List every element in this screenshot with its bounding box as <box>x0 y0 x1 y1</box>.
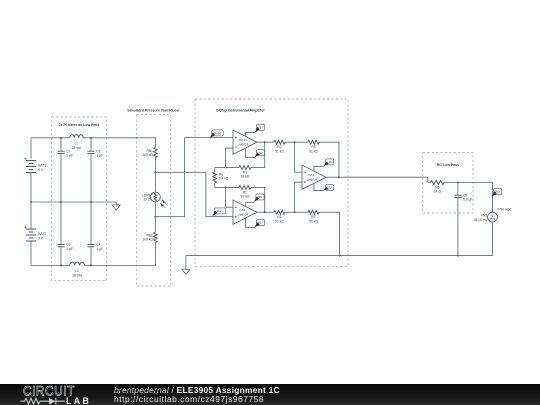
resistor R2' 91 k&#937; <box>274 210 285 214</box>
svg-text:1 µF: 1 µF <box>96 247 103 251</box>
junction <box>294 211 296 213</box>
wire R1 right to OA1 output <box>251 142 265 167</box>
junction <box>60 201 62 203</box>
wire mid rail <box>31 201 116 203</box>
junction <box>90 137 92 139</box>
svg-text:91 kΩ: 91 kΩ <box>241 175 250 179</box>
junction <box>264 141 266 143</box>
svg-text:1 µF: 1 µF <box>66 154 73 158</box>
wire C5 top lead <box>457 183 459 196</box>
wire RB1 bottom lead <box>154 158 156 173</box>
svg-text:28 mH: 28 mH <box>72 146 82 150</box>
svg-text:RC Low Pass: RC Low Pass <box>437 163 459 167</box>
CircuitLab logo <box>22 385 94 405</box>
wire ground stub <box>115 202 117 205</box>
wire R1' left <box>215 186 239 188</box>
junction <box>457 255 459 257</box>
wire C2 top lead <box>90 138 92 151</box>
svg-text:91 kΩ: 91 kΩ <box>241 195 250 199</box>
svg-text:Simulated Pressure Transducer: Simulated Pressure Transducer <box>127 108 180 112</box>
wire RB2 top lead <box>154 217 156 232</box>
wire R2 to R3 <box>285 141 308 143</box>
net flag -9V <box>246 202 255 206</box>
wire Rg bottom lead <box>214 183 216 187</box>
node Y junction <box>154 216 156 218</box>
svg-text:100 kΩ: 100 kΩ <box>142 153 153 157</box>
resistor Rg 2.4 k&#937; <box>213 172 217 183</box>
svg-text:10 Ω: 10 Ω <box>143 198 151 202</box>
wire OA2 output <box>257 211 274 213</box>
svg-text:91 kΩ: 91 kΩ <box>309 219 318 223</box>
svg-text:6.8 µF: 6.8 µF <box>463 198 472 202</box>
junction <box>225 186 227 188</box>
op-amp OA3 LM6024 <box>302 165 326 189</box>
svg-text:0-5V ADC: 0-5V ADC <box>497 208 512 212</box>
net flag +9V <box>246 218 255 227</box>
capacitor C2 <box>87 151 94 153</box>
battery BAT1 <box>26 161 36 173</box>
net flag Vin(-) <box>214 208 225 214</box>
voltmeter VM1 <box>488 212 498 222</box>
wire BAT1 bottom lead <box>30 173 32 203</box>
wire Vin(-) net from node X to op-amp OA2 + input <box>155 172 233 216</box>
wire ground rail <box>186 255 493 257</box>
wire C4 top lead <box>90 202 92 244</box>
wire R1 left <box>215 166 239 168</box>
svg-text:9 V: 9 V <box>38 236 44 240</box>
junction <box>294 141 296 143</box>
wire R6 to output node <box>444 182 493 184</box>
junction <box>90 201 92 203</box>
wire Rg top lead <box>214 167 216 172</box>
svg-text:3-Chip Instrumental Amplifier: 3-Chip Instrumental Amplifier <box>216 108 266 112</box>
capacitor C1 <box>57 151 64 153</box>
wire R3 right to output node <box>319 142 339 177</box>
wire C2 bottom lead <box>90 154 92 202</box>
junction <box>457 182 459 184</box>
svg-text:1 µF: 1 µF <box>66 247 73 251</box>
svg-text:100 kΩ: 100 kΩ <box>142 238 153 242</box>
wire C3 bottom lead <box>60 247 62 266</box>
junction <box>60 137 62 139</box>
ground <box>112 205 120 210</box>
junction <box>339 255 341 257</box>
wire R1' right to OA2 output <box>251 187 265 212</box>
junction <box>60 265 62 267</box>
battery BAT2 <box>26 229 36 241</box>
region box: Simulated Pressure Transducer <box>136 115 171 287</box>
svg-text:34 Ω: 34 Ω <box>434 190 442 194</box>
node X junction <box>154 171 156 173</box>
resistor R3 91 k&#937; <box>308 140 319 144</box>
capacitor C3 <box>57 244 64 246</box>
junction <box>338 176 340 178</box>
resistor RB2 100 k&#937; <box>154 232 158 242</box>
net flag Vin(+) <box>212 130 223 136</box>
wire Vin(+) net from node Y to op-amp OA1 + input <box>155 138 233 217</box>
svg-text:9 V: 9 V <box>38 168 44 172</box>
wire ground stub <box>185 256 187 270</box>
svg-text:28 mH: 28 mH <box>72 273 82 277</box>
wire bottom rail left <box>31 265 70 267</box>
wire OA1 output <box>257 141 274 143</box>
capacitor C4 <box>87 244 94 246</box>
net flag +9V <box>314 167 324 172</box>
resistor R1 91 k&#937; <box>239 165 251 169</box>
wire C4 bottom lead <box>90 247 92 266</box>
svg-text:Vin(+): Vin(+) <box>214 131 221 135</box>
inductor L1 <box>70 135 83 138</box>
op-amp OA1 LM6024 <box>233 130 257 154</box>
svg-text:91 kΩ: 91 kΩ <box>309 149 318 153</box>
net flag -9V <box>246 148 255 157</box>
svg-text:LM6024: LM6024 <box>307 177 318 181</box>
svg-text:91 kΩ: 91 kΩ <box>275 149 284 153</box>
wire top rail right <box>83 137 155 139</box>
region box: 3-Chip Instrumental Amplifier <box>195 99 348 266</box>
net flag -9V <box>314 183 324 190</box>
svg-text:LM6024: LM6024 <box>238 212 249 216</box>
resistor R3' 91 k&#937; <box>308 210 319 214</box>
junction <box>90 265 92 267</box>
net flag Vout <box>494 189 502 195</box>
svg-text:1 µF: 1 µF <box>96 154 103 158</box>
inductor L2 <box>70 262 85 265</box>
wire top rail left <box>31 137 70 139</box>
junction <box>264 211 266 213</box>
resistor R2 91 k&#937; <box>274 140 285 144</box>
wire OA2 - input <box>226 187 233 207</box>
wire C3 top lead <box>60 202 62 244</box>
wire voltmeter bottom lead <box>492 222 494 256</box>
wire bottom rail right <box>84 265 156 267</box>
wire C1 top lead <box>60 138 62 151</box>
wire BAT2 top lead <box>30 202 32 229</box>
wire C1 bottom lead <box>60 154 62 202</box>
wire C5 bottom lead <box>457 198 459 256</box>
junction <box>30 201 32 203</box>
wire RB2 bottom lead <box>154 243 157 266</box>
op-amp OA2 LM6024 <box>233 200 257 224</box>
svg-text:28.15 mV: 28.15 mV <box>473 218 488 222</box>
resistor R6 34 &#937; <box>431 181 444 185</box>
LDR1 light arrows <box>162 201 167 208</box>
photoresistor LDR1 10 &#937; <box>151 192 161 202</box>
wire R2' to R3' <box>285 211 308 213</box>
svg-text:Vin(-): Vin(-) <box>217 209 224 213</box>
svg-text:LM6024: LM6024 <box>238 142 249 146</box>
wire LDR1 bottom lead <box>154 201 156 217</box>
resistor RB1 100 k&#937; <box>154 147 158 157</box>
wire BAT2 bottom lead <box>30 241 32 266</box>
net flag +9V <box>246 133 255 137</box>
wire OA3 output to R6 <box>326 177 431 182</box>
wire RB1 top lead <box>154 138 156 148</box>
junction <box>225 166 227 168</box>
wire to OA3 + input <box>295 182 302 212</box>
region box: RC Low Pass <box>423 153 473 214</box>
wire R3' right to ground rail <box>319 212 340 255</box>
region box: 2x Pi filters as Low Pass <box>52 117 107 281</box>
svg-text:91 kΩ: 91 kΩ <box>275 219 284 223</box>
svg-text:2x Pi filters as Low Pass: 2x Pi filters as Low Pass <box>59 123 100 127</box>
resistor R1' 91 k&#937; <box>239 185 251 189</box>
wire BAT1 top lead <box>30 138 32 159</box>
wire to OA3 - input <box>295 142 302 172</box>
wire Vout down to voltmeter <box>492 183 494 213</box>
wire OA1 - input to R1 node <box>226 148 233 167</box>
ground <box>182 269 190 274</box>
wire LDR1 top lead <box>154 172 156 192</box>
svg-text:2.4 kΩ: 2.4 kΩ <box>219 177 229 181</box>
capacitor C5 <box>454 195 461 197</box>
